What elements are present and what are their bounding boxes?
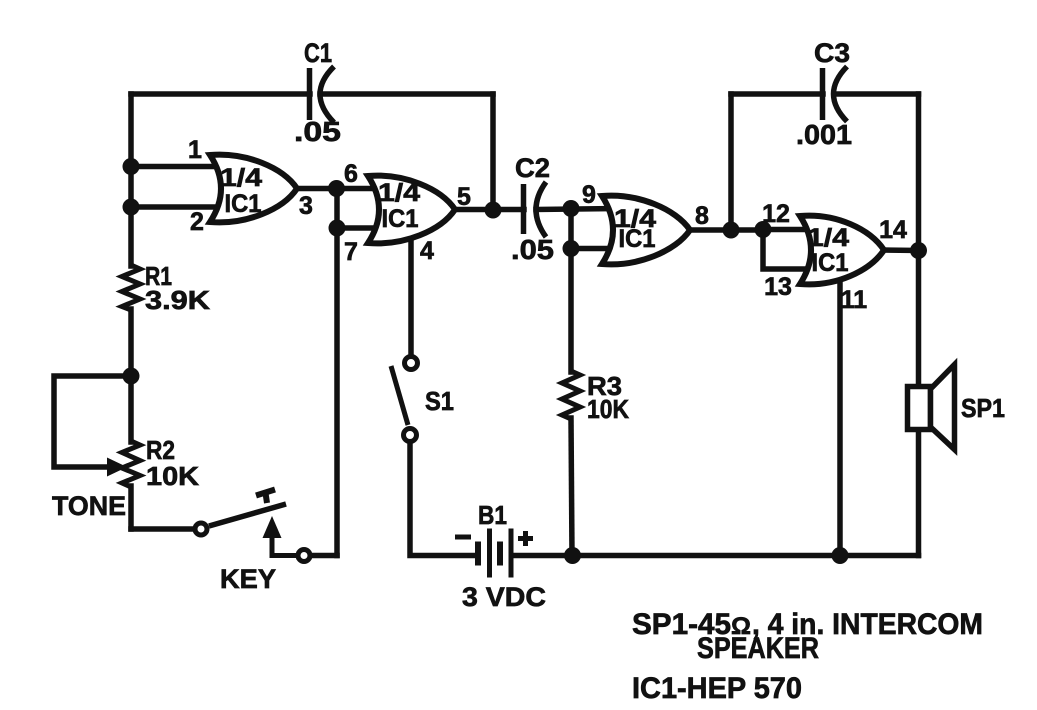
gate U1c (1/4 IC1) bbox=[602, 196, 690, 265]
junction node 6 bbox=[328, 180, 345, 197]
wire C1 to right corner bbox=[320, 91, 493, 97]
svg-text:1/4: 1/4 bbox=[807, 224, 849, 252]
junction node 14 bbox=[910, 242, 927, 259]
junction node R1/R2 tone tap bbox=[123, 368, 140, 385]
wire left rail top segment bbox=[128, 94, 134, 266]
wire S1 to battery bbox=[410, 445, 475, 556]
resistor R3 bbox=[562, 371, 580, 419]
wire pin 10 input stub bbox=[571, 246, 616, 252]
svg-text:4: 4 bbox=[420, 237, 434, 265]
svg-text:3: 3 bbox=[299, 192, 313, 220]
wire gate4 output pin 14 bbox=[882, 247, 919, 253]
wire from node 7 down to key line bbox=[334, 228, 340, 556]
wire node6-node7 vertical tie bbox=[334, 189, 340, 229]
key switch left contact bbox=[195, 523, 207, 535]
wire vertical from C1 loop down to node 5 bbox=[490, 94, 496, 210]
junction node battery plus / R3 bbox=[564, 547, 581, 564]
junction node 10 bbox=[563, 240, 580, 257]
junction node 12 bbox=[755, 221, 772, 238]
battery B1 bbox=[478, 529, 511, 578]
battery minus sign bbox=[455, 535, 471, 540]
resistor R1 bbox=[122, 265, 140, 310]
svg-text:1/4: 1/4 bbox=[220, 164, 262, 192]
svg-text:11: 11 bbox=[841, 286, 868, 314]
svg-text:B1: B1 bbox=[478, 500, 507, 530]
wire gate3 output pin 8 to node 12 bbox=[688, 227, 766, 233]
wire pin 1 input bbox=[131, 164, 224, 170]
resistor R2 (potentiometer) bbox=[122, 441, 140, 487]
wire key circle to vertical rail bbox=[312, 553, 337, 559]
svg-text:2: 2 bbox=[190, 208, 204, 236]
svg-text:6: 6 bbox=[344, 160, 358, 188]
svg-text:IC1: IC1 bbox=[382, 205, 419, 233]
gate U1b (1/4 IC1) bbox=[368, 176, 455, 244]
wire C3 to right rail bbox=[835, 91, 919, 97]
wire R3 bottom lead bbox=[571, 418, 572, 556]
svg-text:1: 1 bbox=[188, 136, 202, 164]
svg-text:IC1: IC1 bbox=[225, 190, 262, 218]
capacitor C2 bbox=[524, 182, 547, 237]
svg-text:5: 5 bbox=[457, 183, 471, 211]
junction node 7 bbox=[329, 220, 346, 237]
svg-text:IC1: IC1 bbox=[812, 249, 849, 277]
svg-text:8: 8 bbox=[695, 202, 709, 230]
wire right vertical rail bbox=[916, 94, 922, 556]
svg-text:S1: S1 bbox=[425, 386, 454, 416]
svg-text:TONE: TONE bbox=[52, 491, 126, 521]
capacitor C1 bbox=[310, 67, 335, 123]
key switch right contact bbox=[298, 550, 310, 562]
svg-text:3.9K: 3.9K bbox=[145, 285, 210, 315]
svg-text:7: 7 bbox=[344, 238, 358, 266]
wire C3 loop top-left bbox=[731, 91, 823, 97]
wire pin 7 input bbox=[337, 225, 382, 231]
wire gate1 output pin 3 to node bbox=[295, 186, 338, 192]
key switch arrow contact bbox=[263, 516, 297, 556]
speaker SP1 driver bbox=[908, 387, 931, 430]
gate U1a (1/4 IC1) bbox=[210, 155, 297, 223]
wire tone loop bbox=[54, 376, 131, 467]
svg-text:SPEAKER: SPEAKER bbox=[697, 632, 819, 665]
junction node 8 bbox=[723, 222, 740, 239]
wire tone line to key contact bbox=[131, 526, 193, 532]
key switch lever bbox=[209, 504, 286, 526]
key switch knob bbox=[256, 490, 275, 504]
wire left rail below R2 bbox=[128, 486, 134, 529]
svg-text:SP1: SP1 bbox=[961, 393, 1005, 423]
wire pin 2 input bbox=[131, 204, 224, 210]
junction node 5 bbox=[485, 202, 502, 219]
svg-text:12: 12 bbox=[762, 200, 790, 228]
svg-text:.05: .05 bbox=[511, 234, 554, 265]
gate U1d (1/4 IC1) bbox=[800, 216, 884, 285]
wire battery positive to bottom rail right bbox=[513, 553, 919, 559]
wire pin 12 input bbox=[763, 227, 814, 233]
junction node pin 11 / bottom rail bbox=[832, 547, 849, 564]
switch S1 contacts bbox=[404, 357, 418, 442]
battery plus sign bbox=[518, 531, 533, 546]
wire C2 to gate3 inputs bbox=[536, 209, 616, 210]
junction node pin 2 bbox=[123, 199, 140, 216]
wire gate2 output pin 5 to C2 bbox=[453, 207, 524, 213]
svg-text:9: 9 bbox=[582, 181, 596, 209]
wire pin 11 down to bottom rail bbox=[837, 260, 843, 556]
switch S1 lever bbox=[391, 366, 408, 425]
svg-text:1/4: 1/4 bbox=[378, 179, 420, 207]
svg-text:IC1-HEP 570: IC1-HEP 570 bbox=[632, 672, 802, 705]
svg-text:.05: .05 bbox=[294, 116, 341, 147]
wire pin 4 down to S1 bbox=[408, 230, 414, 353]
svg-text:10K: 10K bbox=[146, 461, 199, 491]
wire node9-node10 vertical tie bbox=[568, 209, 574, 249]
wire left rail between R1 and R2 bbox=[128, 309, 134, 442]
svg-text:C2: C2 bbox=[515, 153, 550, 183]
wire R3 branch down bbox=[568, 249, 574, 373]
svg-text:13: 13 bbox=[764, 273, 792, 301]
potentiometer R2 wiper arrow bbox=[54, 458, 127, 477]
svg-text:3 VDC: 3 VDC bbox=[462, 582, 546, 612]
wire pin 6 input bbox=[336, 186, 382, 192]
junction node pin 1 bbox=[123, 158, 140, 175]
wire top-left horizontal to C1 bbox=[131, 91, 310, 97]
svg-text:14: 14 bbox=[879, 216, 907, 244]
svg-text:.001: .001 bbox=[796, 119, 852, 150]
wire C3 loop left vertical bbox=[728, 94, 734, 230]
svg-text:C1: C1 bbox=[304, 38, 332, 68]
svg-text:KEY: KEY bbox=[220, 564, 276, 594]
speaker SP1 cone bbox=[931, 365, 955, 450]
svg-text:C3: C3 bbox=[814, 38, 850, 68]
capacitor C3 bbox=[823, 67, 848, 122]
svg-text:10K: 10K bbox=[587, 394, 629, 424]
svg-text:IC1: IC1 bbox=[619, 225, 656, 253]
junction node 9 bbox=[563, 200, 580, 217]
wire pin 13 tie loop bbox=[763, 230, 812, 270]
